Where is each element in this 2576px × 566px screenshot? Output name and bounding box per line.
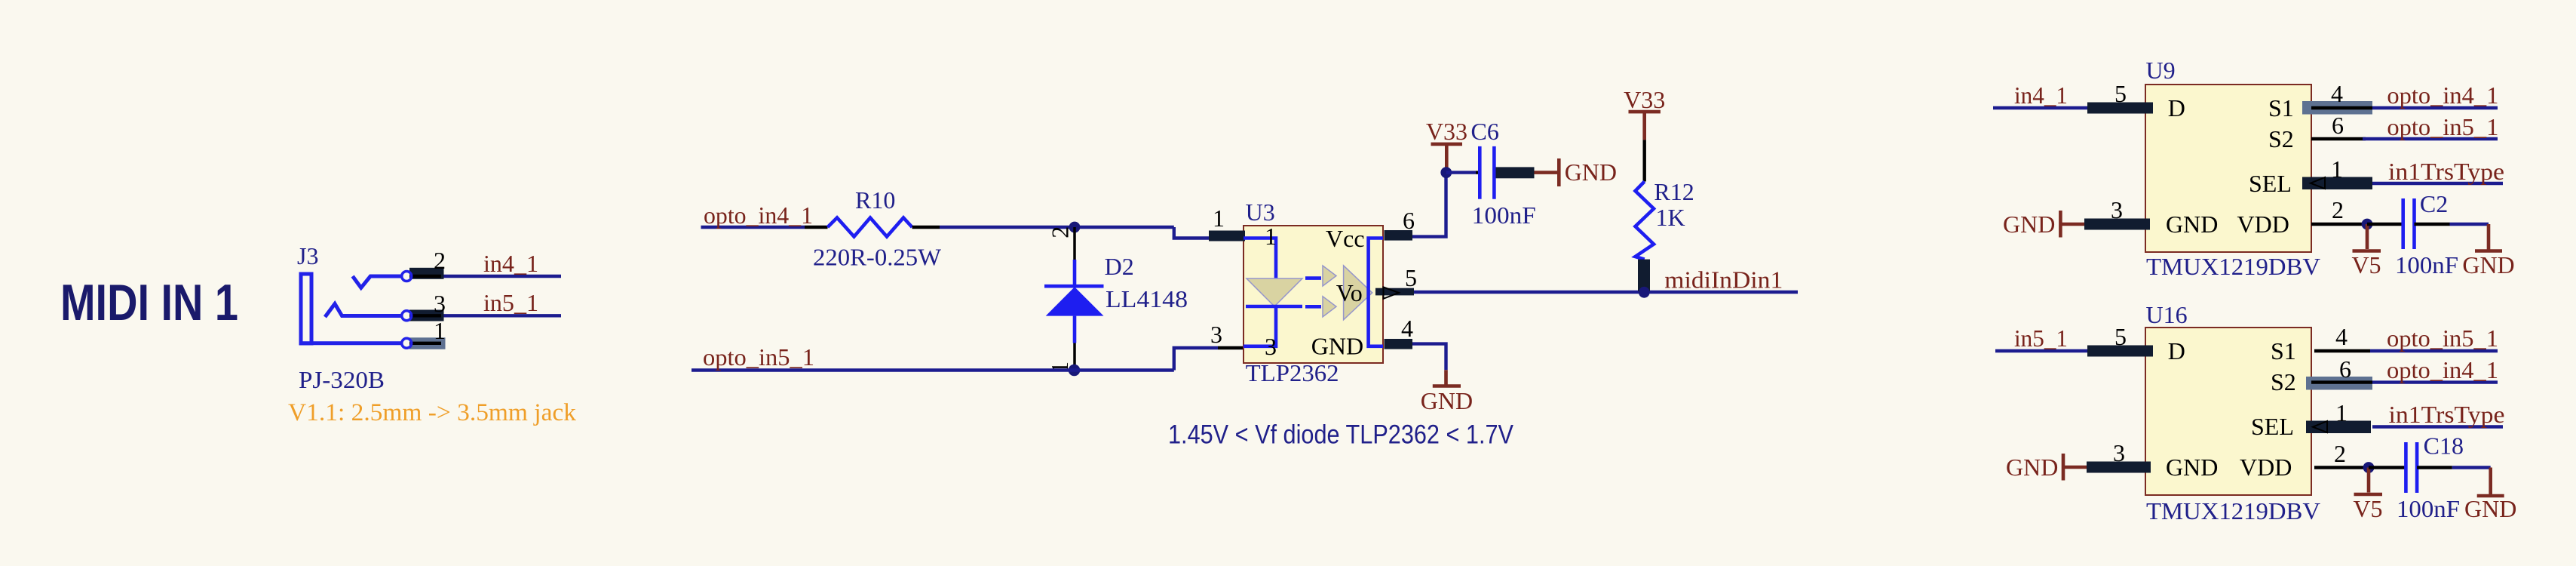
svg-text:D2: D2 (1105, 253, 1134, 280)
svg-text:3: 3 (434, 290, 446, 317)
svg-text:in4_1: in4_1 (483, 250, 538, 277)
svg-text:GND: GND (2464, 495, 2516, 522)
svg-text:VDD: VDD (2237, 211, 2289, 238)
svg-text:opto_in4_1: opto_in4_1 (2387, 356, 2498, 383)
svg-text:100nF: 100nF (2397, 495, 2460, 522)
svg-text:1: 1 (1213, 205, 1225, 232)
svg-text:GND: GND (2166, 211, 2218, 238)
svg-text:opto_in4_1: opto_in4_1 (2387, 82, 2498, 109)
svg-text:1.45V < Vf diode TLP2362 < 1.7: 1.45V < Vf diode TLP2362 < 1.7V (1168, 420, 1514, 450)
svg-text:S2: S2 (2271, 368, 2296, 395)
svg-text:U16: U16 (2146, 301, 2188, 328)
svg-text:3: 3 (2111, 196, 2123, 223)
svg-text:U9: U9 (2146, 57, 2176, 84)
svg-text:in1TrsType: in1TrsType (2389, 401, 2505, 428)
svg-text:3: 3 (2113, 439, 2125, 466)
svg-text:C6: C6 (1471, 118, 1499, 145)
svg-text:U3: U3 (1246, 198, 1275, 226)
svg-text:2: 2 (2334, 440, 2346, 467)
svg-text:TMUX1219DBV: TMUX1219DBV (2146, 497, 2320, 524)
svg-text:opto_in4_1: opto_in4_1 (704, 201, 813, 229)
svg-text:1: 1 (434, 317, 446, 344)
svg-text:V33: V33 (1624, 86, 1665, 113)
svg-text:S1: S1 (2268, 94, 2294, 122)
svg-text:C2: C2 (2420, 190, 2448, 217)
svg-text:GND: GND (2462, 251, 2514, 278)
svg-text:1: 1 (2335, 399, 2348, 426)
svg-text:5: 5 (2114, 323, 2127, 350)
svg-text:2: 2 (2332, 196, 2344, 223)
svg-text:4: 4 (1401, 315, 1413, 342)
svg-text:6: 6 (2339, 355, 2351, 383)
svg-text:GND: GND (2006, 454, 2058, 481)
svg-text:R10: R10 (855, 186, 895, 214)
svg-text:in1TrsType: in1TrsType (2388, 158, 2504, 185)
svg-text:2: 2 (1046, 226, 1073, 238)
svg-text:6: 6 (2332, 112, 2344, 139)
svg-text:opto_in5_1: opto_in5_1 (2387, 325, 2498, 352)
svg-text:1: 1 (1265, 223, 1277, 250)
svg-text:1: 1 (2331, 155, 2343, 183)
svg-text:3: 3 (1265, 333, 1277, 360)
svg-text:opto_in5_1: opto_in5_1 (2387, 113, 2498, 140)
svg-text:opto_in5_1: opto_in5_1 (703, 343, 814, 371)
svg-text:in4_1: in4_1 (2014, 82, 2068, 109)
svg-text:LL4148: LL4148 (1106, 285, 1188, 312)
svg-text:GND: GND (1565, 158, 1617, 186)
svg-text:midiInDin1: midiInDin1 (1664, 266, 1783, 294)
svg-text:D: D (2168, 94, 2185, 122)
svg-text:V5: V5 (2353, 495, 2382, 522)
svg-text:SEL: SEL (2251, 413, 2294, 440)
svg-text:6: 6 (1403, 207, 1415, 234)
svg-text:3: 3 (1210, 321, 1222, 348)
svg-text:R12: R12 (1654, 178, 1694, 205)
svg-text:Vo: Vo (1336, 279, 1363, 306)
svg-text:D: D (2168, 337, 2185, 365)
svg-text:GND: GND (2003, 211, 2055, 238)
svg-text:SEL: SEL (2249, 170, 2292, 197)
svg-text:4: 4 (2335, 323, 2348, 350)
svg-text:PJ-320B: PJ-320B (299, 366, 385, 393)
svg-text:TMUX1219DBV: TMUX1219DBV (2146, 253, 2320, 280)
svg-text:J3: J3 (297, 242, 318, 269)
svg-text:GND: GND (1311, 333, 1363, 360)
svg-text:VDD: VDD (2240, 454, 2292, 481)
svg-text:5: 5 (2114, 80, 2127, 107)
svg-text:GND: GND (1421, 387, 1473, 414)
svg-text:1K: 1K (1656, 204, 1685, 231)
svg-text:TLP2362: TLP2362 (1246, 359, 1339, 386)
svg-text:S2: S2 (2268, 125, 2294, 152)
svg-text:100nF: 100nF (1472, 201, 1536, 229)
svg-text:V1.1: 2.5mm -> 3.5mm jack: V1.1: 2.5mm -> 3.5mm jack (288, 399, 576, 426)
svg-text:V33: V33 (1426, 118, 1467, 145)
svg-text:5: 5 (1405, 264, 1417, 291)
svg-text:2: 2 (434, 247, 446, 274)
svg-text:C18: C18 (2424, 432, 2464, 460)
svg-text:MIDI IN 1: MIDI IN 1 (60, 274, 238, 331)
svg-text:100nF: 100nF (2395, 251, 2458, 278)
svg-text:4: 4 (2331, 80, 2343, 107)
svg-text:S1: S1 (2271, 337, 2296, 365)
svg-text:in5_1: in5_1 (483, 289, 538, 316)
svg-text:in5_1: in5_1 (2014, 325, 2068, 352)
svg-text:Vcc: Vcc (1326, 225, 1365, 252)
svg-text:220R-0.25W: 220R-0.25W (813, 244, 942, 271)
svg-text:GND: GND (2166, 454, 2218, 481)
svg-text:V5: V5 (2351, 251, 2381, 278)
